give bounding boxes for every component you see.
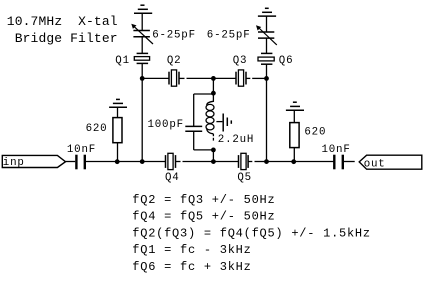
svg-text:10nF: 10nF [67,144,96,156]
node H (left bottom junction) [140,159,145,164]
resistor R1 620 (left) [117,143,119,162]
svg-text:Q3: Q3 [233,55,248,67]
svg-text:6-25pF: 6-25pF [207,30,251,42]
svg-text:Q5: Q5 [237,172,252,184]
svg-text:10nF: 10nF [322,144,351,156]
node J (output node) [291,159,296,164]
inductor L1 2.2uH [207,94,214,105]
wire node F to Q5 [213,161,238,163]
node I (right bottom junction) [264,159,269,164]
wire Q2 to node B [187,77,214,79]
crystal Q1 [137,53,149,63]
wire Q5 stub [248,161,252,163]
svg-text:620: 620 [304,126,326,138]
wire gnd1 to varcap C1 [141,13,143,30]
wire Q4 stub [176,161,181,163]
ground GND3 (left 620) [109,99,127,107]
wire node I to node J [267,161,294,163]
label 6-25pF (left) [152,30,196,42]
svg-text:out: out [364,159,386,171]
wire tank left rail upper [193,94,195,126]
wire node B down to tank top [212,78,214,94]
input arrow box inp [2,155,65,167]
svg-text:Q1: Q1 [115,55,130,67]
svg-text:Q4: Q4 [165,172,180,184]
wire varcap C1 to crystal Q1 [141,37,143,54]
bottom bus wire node G to left column [117,161,142,163]
variable capacitor C1 6-25pF (left) [133,31,150,37]
label 6-25pF (right) [207,30,251,42]
label 10nF (input) [67,144,96,156]
node G (input node) [115,159,120,164]
variable capacitor C2 6-25pF (right) [258,32,274,38]
wire gnd2 to varcap C2 [266,16,268,32]
capacitor 10nF (output) [334,155,343,170]
node C (right top junction) [264,76,269,81]
svg-text:fQ6 = fc + 3kHz: fQ6 = fc + 3kHz [132,260,251,274]
label Q4 [165,172,180,184]
inductor core adjust symbol [216,121,222,123]
svg-text:fQ2 = fQ3 +/- 50Hz: fQ2 = fQ3 +/- 50Hz [132,193,275,207]
svg-text:6-25pF: 6-25pF [152,30,196,42]
wire tank top rail [194,93,214,95]
output arrow box out [359,155,422,169]
wire Q3 stub [246,77,250,79]
label 620 (left) [86,123,108,135]
wire tank bottom rail [194,149,214,151]
resistor R2 620 (right) [293,148,295,162]
node F (bottom middle junction) [211,159,216,164]
svg-text:fQ4 = fQ5 +/- 50Hz: fQ4 = fQ5 +/- 50Hz [132,210,275,224]
label Q6 [279,55,294,67]
label Q3 [233,55,248,67]
title text [7,14,118,46]
wire Q6 down to node C and bottom bus [266,64,268,161]
wire node B to Q3 [213,77,236,79]
label Q1 [115,55,130,67]
node A (left top junction) [140,76,145,81]
ground GND4 (right 620) [286,102,304,110]
wire Q1 down through node to bottom bus [141,63,143,161]
label 10nF (output) [322,144,351,156]
crystal Q6 [261,53,272,64]
svg-text:100pF: 100pF [148,119,184,131]
wire Q2 stub [179,77,185,79]
node B (top middle junction) [211,76,216,81]
svg-text:inp: inp [3,157,25,169]
label 2.2uH [218,134,254,146]
wire tank left rail lower [193,131,195,150]
svg-text:Bridge Filter: Bridge Filter [15,31,118,46]
wire Q5 to node I [255,161,267,163]
wire node J to output cap [294,161,335,163]
svg-text:fQ1 = fc - 3kHz: fQ1 = fc - 3kHz [132,243,251,257]
wire Q4 to node F [183,161,214,163]
node D (tank top junction) [211,91,216,96]
wire varcap C2 to crystal Q6 [266,38,268,53]
svg-text:Q2: Q2 [167,55,182,67]
wire cap to node G [85,161,117,163]
crystal Q3 [236,72,246,85]
label 620 (right) [304,126,326,138]
wire tank bottom to bus [212,150,214,162]
wire inp to cap [66,161,76,163]
svg-text:Q6: Q6 [279,55,294,67]
wire cap to out arrow [343,161,355,163]
top bus wire node A to Q2 [142,77,169,79]
crystal Q2 [169,72,179,85]
wire to Q4 [142,161,165,163]
capacitor 100pF [185,126,202,131]
ground GND1 (top left) [134,5,152,13]
node E (tank bottom junction) [211,148,216,153]
svg-text:620: 620 [86,123,108,135]
wire Q3 to node C [252,77,266,79]
label Q5 [237,172,252,184]
dashed wire below inductor [212,134,214,136]
ground GND2 (top right) [258,8,276,16]
svg-text:10.7MHz X-tal: 10.7MHz X-tal [7,14,118,29]
capacitor 10nF (input) [76,155,84,170]
label Q2 [167,55,182,67]
label 100pF [148,119,184,131]
crystal Q4 [166,155,176,168]
formula text block [132,193,371,274]
svg-text:2.2uH: 2.2uH [218,134,254,146]
svg-text:fQ2(fQ3) = fQ4(fQ5) +/- 1.5kHz: fQ2(fQ3) = fQ4(fQ5) +/- 1.5kHz [132,226,371,240]
crystal Q5 [239,155,249,168]
